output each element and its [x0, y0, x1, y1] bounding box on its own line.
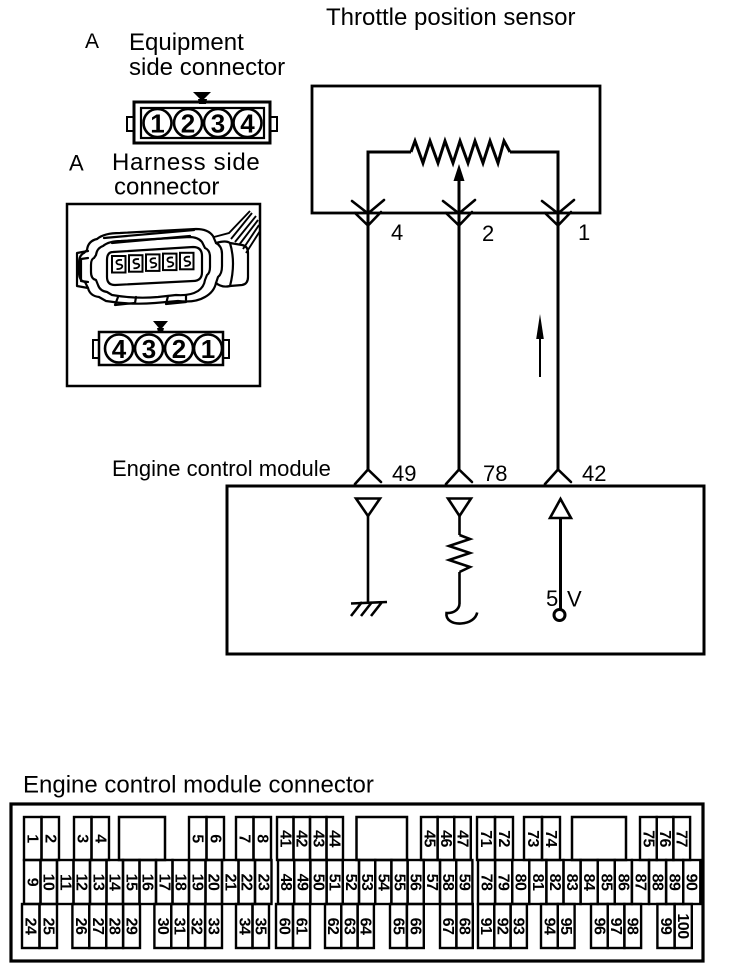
svg-text:46: 46	[437, 830, 454, 847]
svg-text:50: 50	[310, 874, 327, 891]
svg-text:27: 27	[89, 918, 106, 935]
svg-text:31: 31	[171, 918, 188, 935]
ECM connector pins 96-98	[590, 904, 641, 948]
svg-text:89: 89	[666, 874, 683, 891]
svg-text:A: A	[69, 151, 84, 176]
svg-text:11: 11	[56, 874, 73, 891]
ECM connector pins 24-25	[22, 904, 57, 948]
svg-text:4: 4	[240, 109, 255, 139]
svg-text:81: 81	[529, 874, 546, 891]
svg-text:48: 48	[277, 874, 294, 891]
svg-text:4: 4	[391, 220, 403, 245]
ECM connector pins 62-64	[324, 904, 374, 948]
svg-text:100: 100	[674, 913, 691, 939]
harness housing terminal cavity 3	[146, 254, 160, 271]
svg-text:1: 1	[150, 109, 164, 139]
ECM connector pins 94-95	[540, 904, 574, 948]
svg-text:97: 97	[607, 918, 624, 935]
wire terminal 2 to ECM pin 78	[458, 213, 461, 470]
svg-text:51: 51	[326, 874, 343, 891]
svg-text:90: 90	[683, 874, 700, 891]
svg-text:73: 73	[524, 830, 541, 847]
svg-text:4: 4	[91, 834, 108, 843]
potentiometer resistive track	[411, 141, 510, 163]
ECM connector pins 34-35	[235, 904, 269, 948]
throttle position sensor box	[312, 86, 600, 213]
svg-text:12: 12	[73, 874, 90, 891]
harness connector pin 1	[194, 334, 222, 364]
ECM connector pins 75-77	[639, 817, 690, 860]
svg-text:8: 8	[253, 834, 270, 843]
harness housing terminal cavity 2	[129, 255, 143, 272]
ECM connector pins 99-100	[657, 904, 692, 948]
svg-text:32: 32	[188, 918, 205, 935]
svg-text:16: 16	[139, 874, 156, 891]
ECM connector blank key cell	[119, 817, 165, 860]
svg-text:85: 85	[597, 874, 614, 891]
svg-text:87: 87	[631, 874, 648, 891]
svg-text:29: 29	[123, 918, 140, 935]
svg-text:65: 65	[389, 918, 406, 935]
svg-text:5: 5	[546, 586, 558, 611]
svg-text:10: 10	[40, 874, 57, 891]
svg-text:28: 28	[106, 918, 123, 935]
svg-text:A: A	[85, 30, 99, 53]
svg-text:6: 6	[206, 834, 223, 843]
wire: resistor to hook	[458, 572, 461, 604]
svg-text:93: 93	[510, 918, 527, 935]
svg-text:94: 94	[540, 918, 557, 935]
connector A harness-side frame	[67, 204, 260, 386]
svg-text:3: 3	[211, 109, 225, 139]
svg-text:98: 98	[624, 918, 641, 935]
svg-text:91: 91	[477, 918, 494, 935]
svg-text:64: 64	[357, 918, 374, 935]
svg-text:3: 3	[74, 834, 91, 843]
ECM connector pins 3-4	[74, 817, 109, 860]
svg-text:42: 42	[293, 830, 310, 847]
svg-text:44: 44	[326, 830, 343, 847]
svg-text:78: 78	[478, 874, 495, 891]
harness housing terminal cavity 5	[180, 253, 194, 269]
harness connector pin 4	[105, 334, 133, 364]
svg-text:1: 1	[578, 220, 590, 245]
svg-text:83: 83	[563, 874, 580, 891]
ECM internal: pin 49 input triangle	[356, 499, 380, 517]
svg-text:60: 60	[276, 918, 293, 935]
ECM connector pins 73-74	[524, 817, 560, 860]
equipment connector pin 3	[204, 109, 232, 139]
ECM pin 78 connector symbol	[446, 470, 472, 485]
ECM connector pins 65-66	[389, 904, 423, 948]
svg-text:9: 9	[23, 878, 40, 887]
svg-text:80: 80	[512, 874, 529, 891]
wire: track right end to terminal 1	[510, 152, 558, 213]
svg-text:53: 53	[358, 874, 375, 891]
connector A harness-side housing (3D view)	[77, 229, 248, 305]
svg-text:25: 25	[39, 918, 56, 935]
ECM connector pins 9-23	[23, 860, 271, 904]
svg-text:26: 26	[72, 918, 89, 935]
svg-text:2: 2	[181, 109, 195, 139]
svg-text:54: 54	[374, 874, 391, 891]
svg-text:15: 15	[122, 874, 139, 891]
ECM connector blank key cell	[572, 817, 626, 860]
svg-text:20: 20	[205, 874, 222, 891]
svg-text:V: V	[567, 587, 582, 612]
svg-text:49: 49	[293, 874, 310, 891]
hook symbol (internal circuit)	[446, 604, 477, 624]
svg-text:3: 3	[142, 334, 156, 364]
svg-text:61: 61	[293, 918, 310, 935]
svg-text:55: 55	[391, 874, 408, 891]
svg-text:99: 99	[657, 918, 674, 935]
svg-text:84: 84	[580, 874, 597, 891]
svg-text:Engine control module: Engine control module	[112, 456, 331, 481]
engine control module box	[227, 486, 704, 654]
harness housing terminal cavity 1	[112, 256, 126, 273]
svg-text:95: 95	[557, 918, 574, 935]
svg-text:19: 19	[188, 874, 205, 891]
svg-text:Throttle position sensor: Throttle position sensor	[326, 4, 575, 31]
svg-text:side connector: side connector	[129, 54, 285, 81]
svg-text:75: 75	[639, 830, 656, 847]
chassis ground symbol	[351, 602, 387, 616]
svg-text:14: 14	[106, 874, 123, 891]
svg-text:4: 4	[112, 334, 127, 364]
svg-text:88: 88	[649, 874, 666, 891]
svg-text:78: 78	[483, 461, 507, 486]
ECM connector pins 7-8	[236, 817, 271, 860]
sensor terminal 2 connector symbol	[443, 200, 475, 226]
svg-text:59: 59	[455, 874, 472, 891]
sensor terminal 4 connector symbol	[352, 200, 384, 226]
svg-text:43: 43	[309, 830, 326, 847]
svg-text:30: 30	[154, 918, 171, 935]
svg-text:Harness side: Harness side	[112, 149, 260, 176]
svg-text:18: 18	[172, 874, 189, 891]
svg-text:62: 62	[324, 918, 341, 935]
svg-text:5: 5	[189, 834, 206, 843]
svg-text:45: 45	[420, 830, 437, 847]
svg-text:24: 24	[22, 918, 39, 935]
svg-text:49: 49	[392, 461, 416, 486]
svg-text:17: 17	[155, 874, 172, 891]
svg-text:21: 21	[221, 874, 238, 891]
svg-text:96: 96	[590, 918, 607, 935]
ECM connector pins 71-72	[477, 817, 513, 860]
svg-text:Equipment: Equipment	[129, 29, 244, 56]
svg-text:13: 13	[89, 874, 106, 891]
5V supply terminal circle	[554, 610, 565, 621]
harness connector pin 2	[165, 334, 193, 364]
potentiometer wiper arrow	[454, 164, 465, 213]
svg-text:67: 67	[439, 918, 456, 935]
ECM connector pins 91-93	[477, 904, 527, 948]
harness wires exiting connector	[214, 211, 260, 253]
svg-text:2: 2	[172, 334, 186, 364]
connector A equipment-side housing	[127, 92, 277, 143]
svg-text:33: 33	[205, 918, 222, 935]
svg-text:Engine control module connecto: Engine control module connector	[23, 772, 374, 799]
svg-text:68: 68	[456, 918, 473, 935]
sensor terminal 1 connector symbol	[542, 200, 574, 226]
wire: triangle to resistor	[458, 516, 461, 535]
ECM connector pins 45-47	[420, 817, 471, 860]
ECM connector pins 5-6	[189, 817, 224, 860]
svg-text:41: 41	[276, 830, 293, 847]
ECM connector blank key cell	[357, 817, 408, 860]
svg-text:2: 2	[482, 221, 494, 246]
ECM connector pins 78-90	[478, 860, 701, 904]
svg-text:34: 34	[235, 918, 252, 935]
equipment connector pin 1	[144, 109, 172, 139]
svg-text:56: 56	[407, 874, 424, 891]
ECM internal: pin 42 output triangle	[550, 499, 571, 518]
svg-text:77: 77	[673, 830, 690, 847]
harness connector pin row housing	[93, 321, 229, 365]
svg-text:1: 1	[24, 834, 41, 843]
svg-text:2: 2	[41, 834, 58, 843]
ECM connector pins 60-61	[276, 904, 311, 948]
ECM internal: pin 78 input triangle	[448, 499, 471, 517]
svg-text:58: 58	[439, 874, 456, 891]
svg-text:1: 1	[201, 334, 215, 364]
harness housing terminal cavity 4	[163, 254, 177, 271]
svg-text:connector: connector	[114, 174, 219, 201]
svg-text:72: 72	[495, 830, 512, 847]
svg-text:63: 63	[340, 918, 357, 935]
svg-text:71: 71	[477, 830, 494, 847]
ECM connector pins 67-68	[439, 904, 473, 948]
engine control module connector outline	[11, 804, 703, 961]
svg-text:92: 92	[493, 918, 510, 935]
ECM internal pull-up resistor	[449, 535, 470, 572]
ECM pin 49 connector symbol	[355, 470, 381, 485]
svg-text:22: 22	[238, 874, 255, 891]
svg-text:79: 79	[495, 874, 512, 891]
svg-text:52: 52	[342, 874, 359, 891]
wire terminal 4 to ECM pin 49	[367, 213, 370, 470]
svg-text:82: 82	[546, 874, 563, 891]
svg-text:66: 66	[406, 918, 423, 935]
current direction arrow on wire to pin 42	[536, 314, 544, 377]
ECM connector pins 41-44	[276, 817, 343, 860]
svg-text:42: 42	[582, 461, 606, 486]
wire: triangle to 5V terminal	[559, 518, 562, 609]
ECM pin 42 connector symbol	[545, 470, 571, 485]
svg-text:47: 47	[454, 830, 471, 847]
svg-text:23: 23	[254, 874, 271, 891]
svg-text:57: 57	[423, 874, 440, 891]
wire: track left end to terminal 4	[368, 152, 411, 213]
svg-text:7: 7	[236, 834, 253, 843]
wire: triangle to ground	[367, 516, 370, 602]
svg-text:86: 86	[614, 874, 631, 891]
svg-text:74: 74	[542, 830, 559, 847]
ECM connector pins 30-33	[154, 904, 222, 948]
equipment connector pin 2	[174, 109, 202, 139]
ECM connector pins 48-59	[277, 860, 472, 904]
harness connector pin 3	[135, 334, 163, 364]
svg-text:76: 76	[656, 830, 673, 847]
svg-text:35: 35	[252, 918, 269, 935]
ECM connector pins 1-2	[24, 817, 59, 860]
equipment connector pin 4	[234, 109, 262, 139]
ECM connector pins 26-29	[72, 904, 140, 948]
wire terminal 1 to ECM pin 42	[557, 213, 560, 470]
